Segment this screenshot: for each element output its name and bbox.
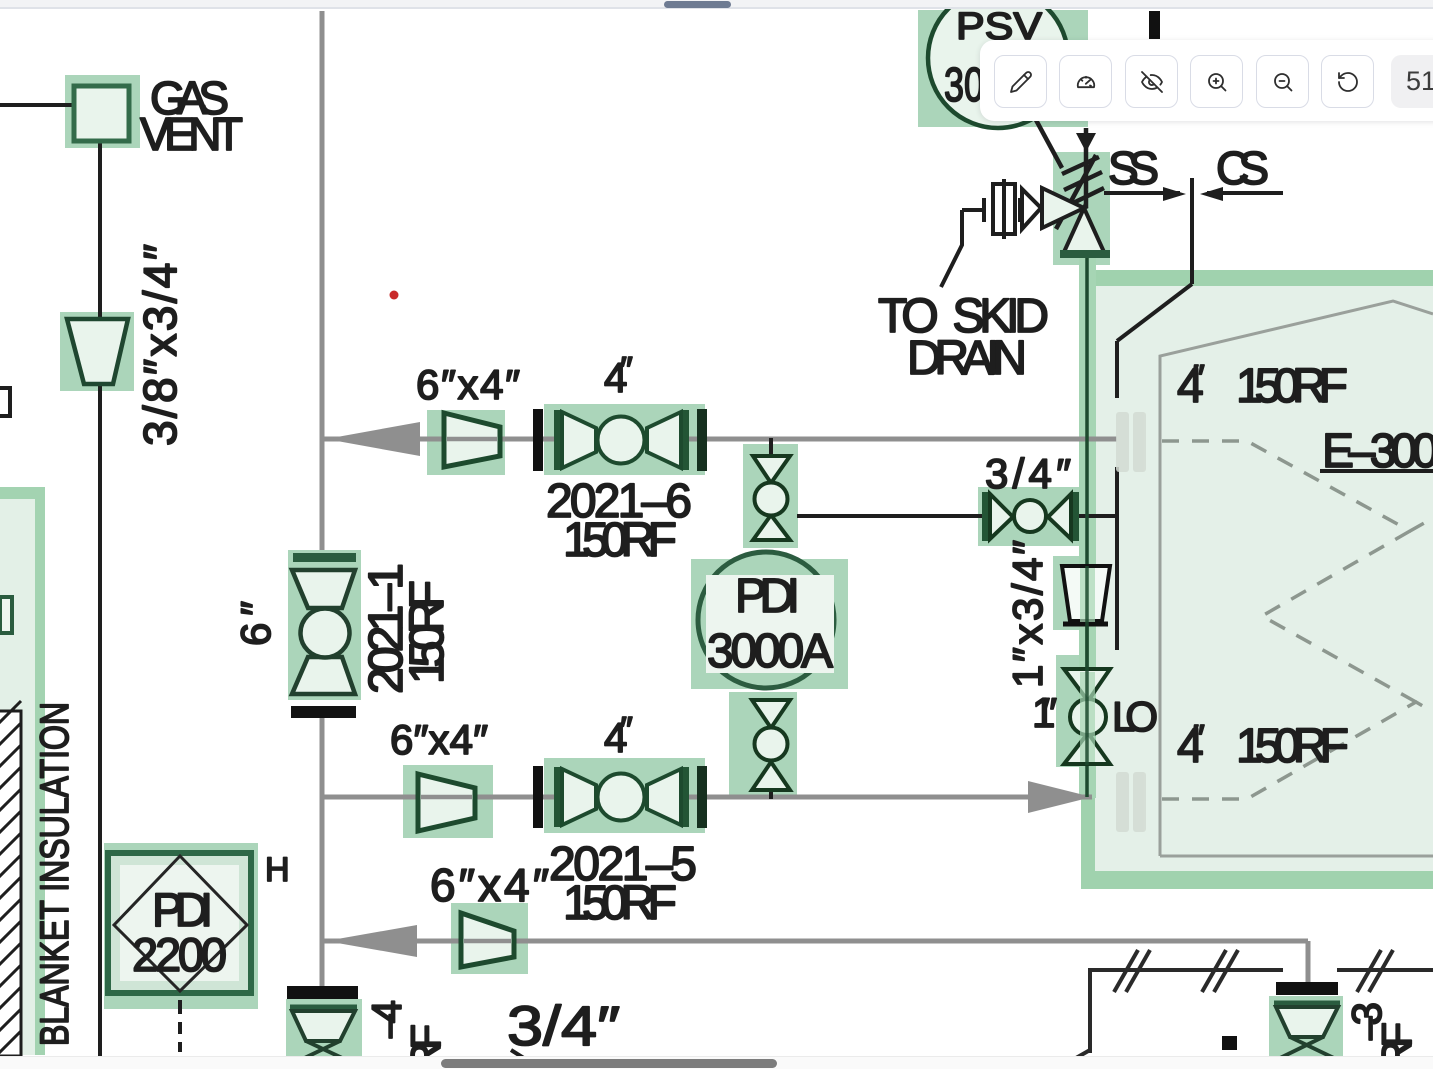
svg-text:3/4″: 3/4″ — [985, 450, 1071, 497]
svg-text:150RF: 150RF — [563, 514, 677, 567]
svg-text:150RF: 150RF — [563, 877, 677, 930]
svg-text:150RF: 150RF — [1236, 360, 1348, 413]
svg-text:2200: 2200 — [132, 928, 227, 981]
svg-text:6″: 6″ — [232, 601, 279, 646]
svg-text:150RF: 150RF — [401, 580, 454, 684]
svg-text:PDI: PDI — [735, 570, 800, 623]
svg-text:CS: CS — [1216, 142, 1269, 194]
svg-text:″: ″ — [620, 349, 633, 390]
svg-text:150RF: 150RF — [1236, 720, 1349, 773]
svg-text:″: ″ — [620, 709, 633, 750]
svg-text:6″x4″: 6″x4″ — [430, 859, 549, 911]
svg-text:3/4″: 3/4″ — [507, 994, 620, 1057]
svg-text:H: H — [265, 851, 290, 889]
svg-text:″: ″ — [1192, 717, 1205, 758]
svg-text:3/8″x3/4″: 3/8″x3/4″ — [134, 244, 186, 446]
svg-text:SS: SS — [1108, 142, 1159, 194]
svg-text:6″x4″: 6″x4″ — [416, 361, 520, 408]
svg-text:VENT: VENT — [140, 108, 243, 160]
svg-text:1″: 1″ — [1032, 689, 1057, 736]
svg-text:6″x4″: 6″x4″ — [390, 716, 488, 763]
svg-text:LO: LO — [1112, 693, 1158, 740]
svg-text:″: ″ — [1192, 357, 1205, 398]
svg-text:1″x3/4″: 1″x3/4″ — [1004, 540, 1051, 688]
svg-text:30: 30 — [944, 59, 984, 112]
svg-text:3000A: 3000A — [707, 625, 833, 678]
svg-text:BLANKET INSULATION: BLANKET INSULATION — [33, 702, 77, 1046]
svg-text:DRAIN: DRAIN — [907, 332, 1027, 385]
